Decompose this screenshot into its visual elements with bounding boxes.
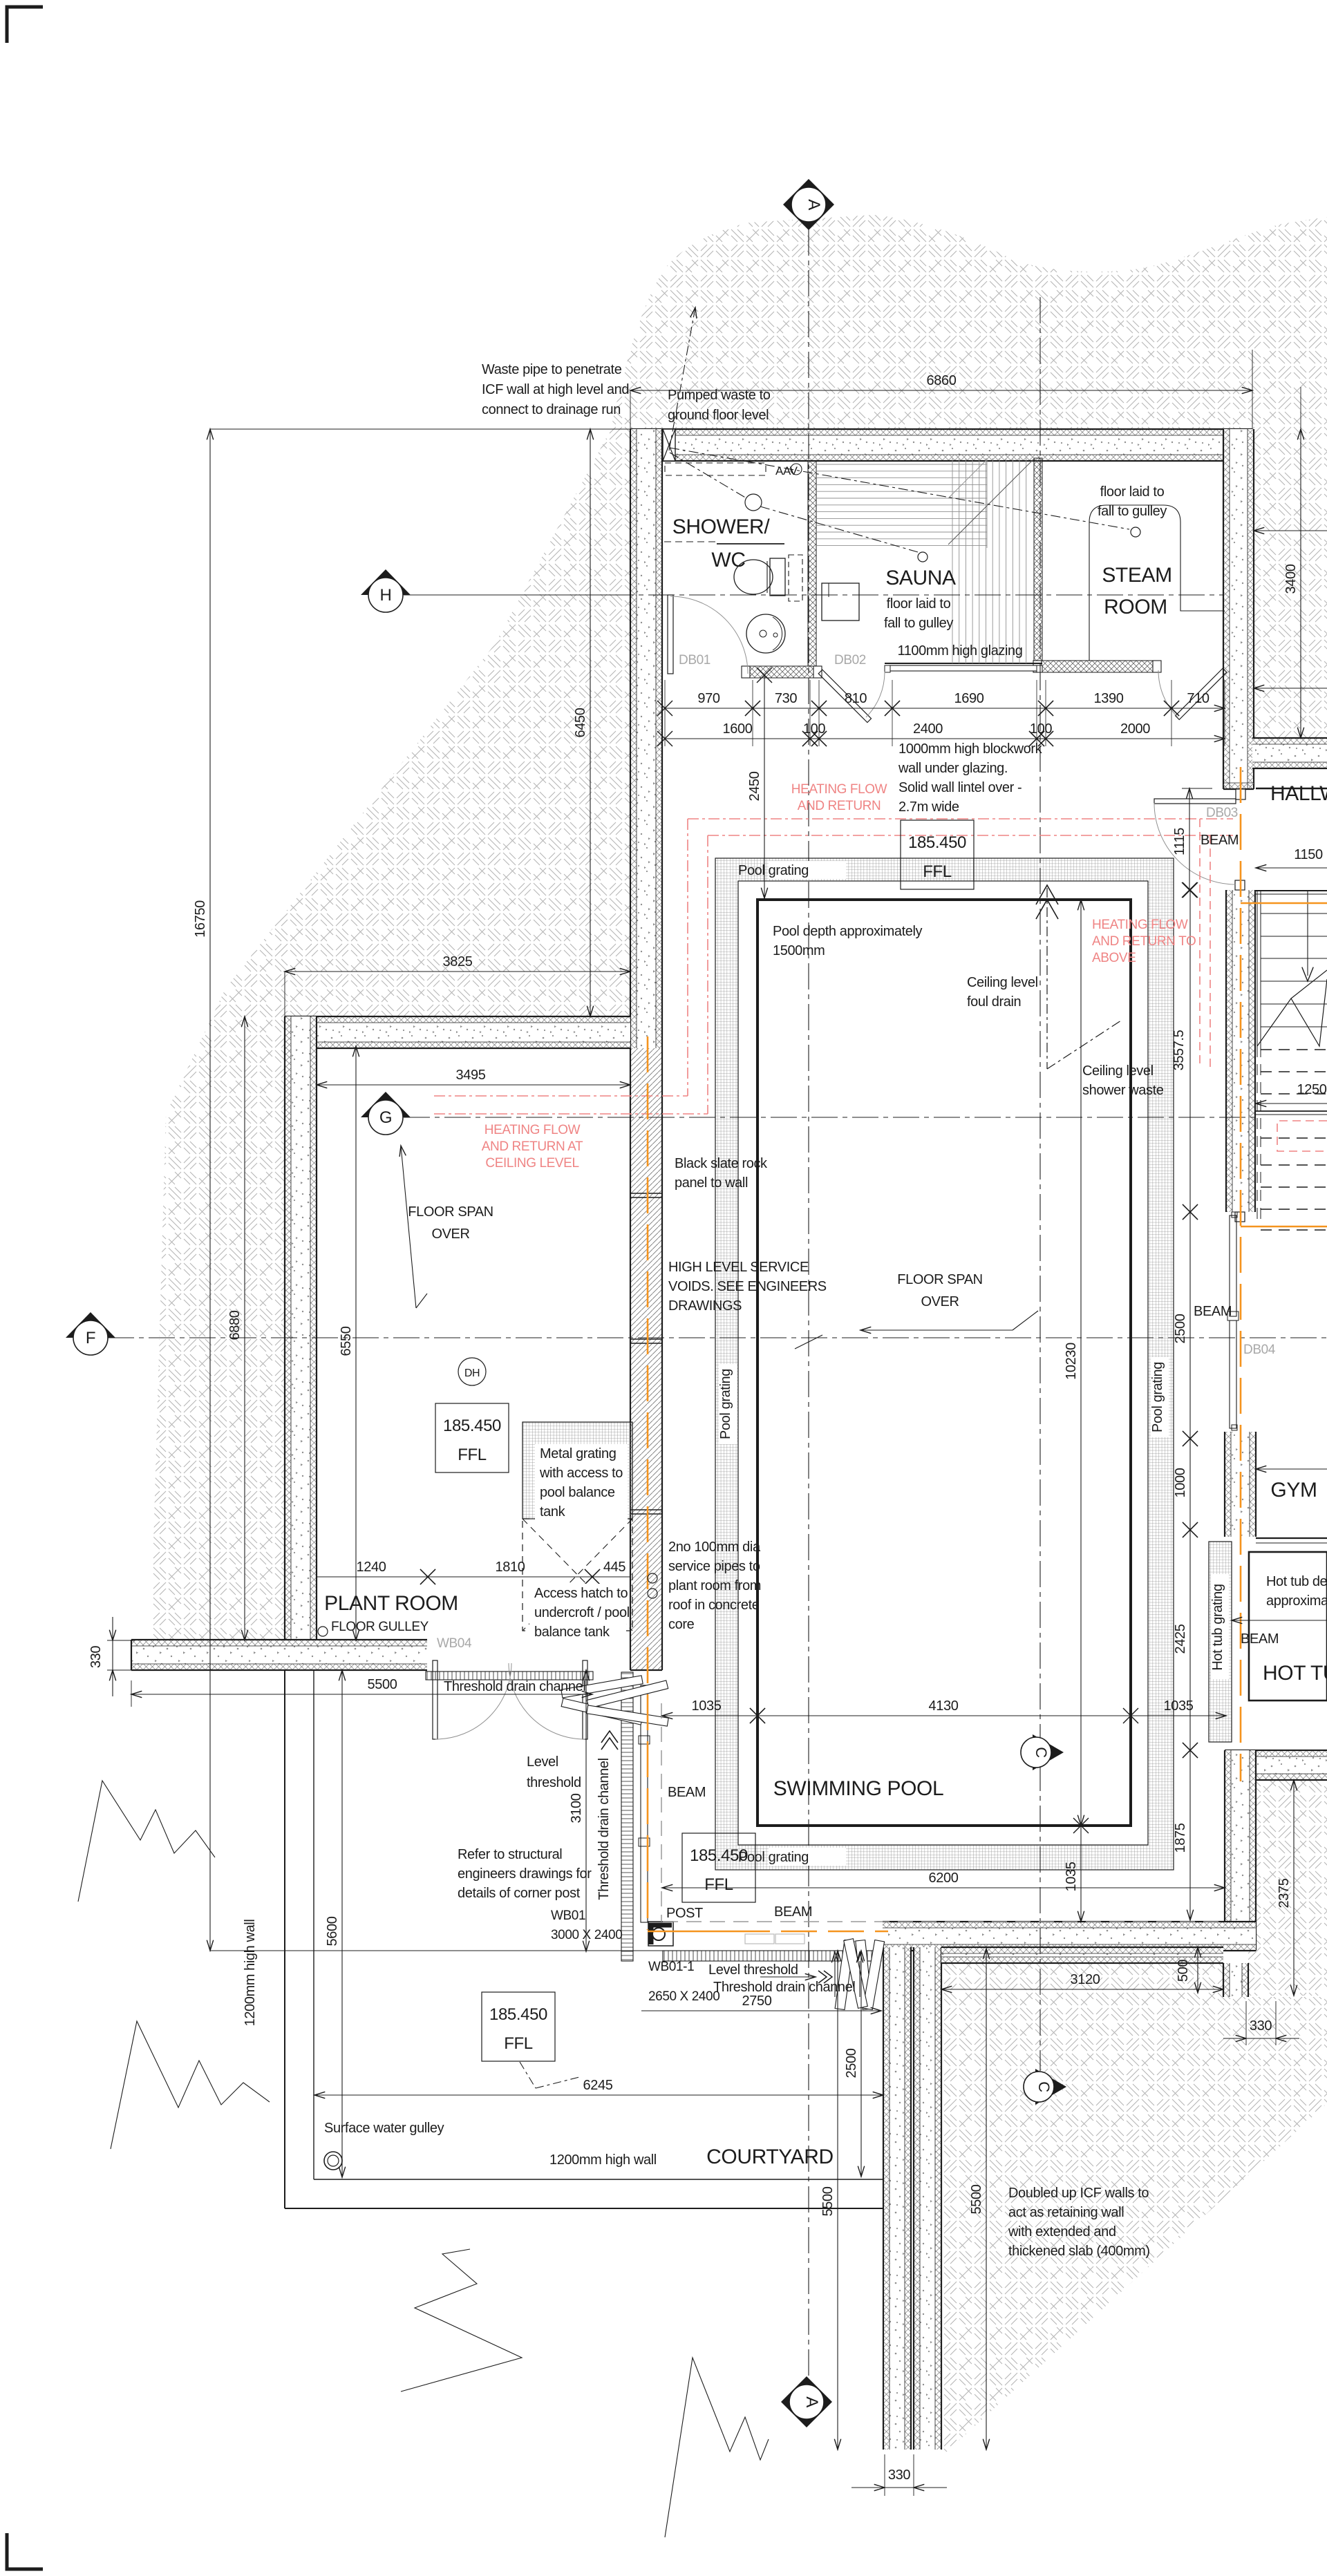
svg-text:BEAM: BEAM	[774, 1904, 812, 1920]
svg-text:2500: 2500	[1173, 1314, 1188, 1343]
svg-text:1115: 1115	[1172, 828, 1187, 855]
svg-text:C: C	[1035, 2081, 1053, 2092]
surface water gulley	[324, 2152, 342, 2170]
svg-text:Hot tub grating: Hot tub grating	[1210, 1584, 1225, 1670]
svg-text:10230: 10230	[1064, 1343, 1079, 1380]
svg-text:Solid wall lintel over -: Solid wall lintel over -	[898, 780, 1022, 795]
FFL box pool SW	[682, 1833, 755, 1902]
grid marker F	[66, 1312, 115, 1338]
svg-text:A: A	[802, 2396, 821, 2407]
svg-text:1810: 1810	[496, 1560, 525, 1575]
svg-text:1035: 1035	[1064, 1862, 1079, 1891]
retaining wall leaf A	[883, 1947, 911, 2450]
svg-text:185.450: 185.450	[443, 1417, 501, 1435]
svg-text:HEATING FLOW: HEATING FLOW	[484, 1123, 581, 1137]
section marker C mid	[1033, 1734, 1064, 1770]
svg-text:Pool depth approximately: Pool depth approximately	[773, 924, 922, 939]
dim 500	[1197, 1947, 1198, 1993]
grid marker H	[404, 594, 630, 596]
dim 2750	[641, 2010, 881, 2011]
svg-text:pool balance: pool balance	[540, 1485, 615, 1500]
dim 6860 top	[630, 390, 631, 429]
svg-text:6860: 6860	[927, 373, 957, 388]
svg-text:wall under glazing.: wall under glazing.	[898, 761, 1008, 776]
door DB01 leaf+swing	[668, 595, 673, 674]
svg-text:FLOOR GULLEY: FLOOR GULLEY	[331, 1620, 429, 1634]
pool surround grating ring	[715, 858, 1174, 1870]
svg-text:FFL: FFL	[923, 862, 952, 881]
partition shower/sauna	[808, 461, 816, 666]
dim 3120	[941, 1963, 942, 1993]
svg-text:HEATING FLOW: HEATING FLOW	[1092, 918, 1188, 932]
svg-text:WB01-1: WB01-1	[648, 1960, 694, 1974]
dim 10230 pool	[1080, 900, 1082, 1826]
partition sauna/steam	[1034, 458, 1042, 661]
svg-text:2.7m wide: 2.7m wide	[898, 799, 959, 815]
sauna floor boards	[816, 464, 987, 465]
svg-text:1500mm: 1500mm	[773, 943, 825, 958]
svg-text:plant room from: plant room from	[668, 1578, 761, 1593]
hot tub grating strip	[1209, 1542, 1232, 1742]
dim 3100	[585, 1670, 587, 1951]
stairs stringer lines	[1257, 891, 1258, 1046]
dim 6200	[662, 1887, 1225, 1888]
dim 5600	[341, 1670, 343, 2177]
svg-text:1600: 1600	[723, 721, 753, 737]
zigzag terrain mark 3	[401, 2249, 522, 2392]
svg-text:service pipes to: service pipes to	[668, 1559, 760, 1574]
waste X-box in wall	[663, 429, 675, 461]
east side stub dims	[1254, 530, 1327, 531]
svg-text:6245: 6245	[583, 2078, 613, 2093]
dim 3495	[317, 1084, 630, 1086]
dim 16750 left	[210, 428, 630, 430]
section marker A bottom	[781, 2376, 832, 2427]
svg-text:Access hatch to: Access hatch to	[534, 1586, 628, 1601]
stairs break line	[1257, 979, 1327, 1046]
svg-text:DRAWINGS: DRAWINGS	[668, 1298, 742, 1314]
svg-text:1240: 1240	[357, 1560, 386, 1575]
DB03 jamb stub	[1236, 789, 1245, 799]
svg-text:1200mm high wall: 1200mm high wall	[243, 1920, 258, 2027]
svg-text:3495: 3495	[456, 1068, 486, 1083]
svg-text:AAV: AAV	[775, 464, 798, 477]
svg-text:threshold: threshold	[527, 1775, 581, 1790]
svg-text:HIGH LEVEL SERVICE: HIGH LEVEL SERVICE	[668, 1260, 809, 1275]
svg-text:810: 810	[845, 691, 867, 706]
dim 1115	[1182, 788, 1212, 789]
svg-text:Pumped waste to: Pumped waste to	[668, 388, 771, 403]
svg-text:FLOOR SPAN: FLOOR SPAN	[897, 1272, 982, 1287]
svg-text:ABOVE: ABOVE	[1092, 951, 1136, 965]
svg-text:6880: 6880	[227, 1310, 243, 1340]
corner post	[648, 1922, 673, 1946]
svg-text:BEAM: BEAM	[668, 1785, 706, 1800]
svg-text:DB03: DB03	[1206, 806, 1238, 820]
svg-text:FLOOR SPAN: FLOOR SPAN	[408, 1204, 493, 1220]
svg-text:2750: 2750	[742, 1993, 772, 2009]
gym dim arrow	[1256, 1468, 1327, 1470]
svg-text:6550: 6550	[339, 1326, 354, 1356]
svg-text:Level threshold: Level threshold	[708, 1962, 798, 1978]
svg-text:shower waste: shower waste	[1082, 1083, 1164, 1098]
svg-text:2no 100mm dia: 2no 100mm dia	[668, 1540, 761, 1555]
svg-text:HALLW: HALLW	[1270, 782, 1327, 805]
svg-text:Level: Level	[527, 1754, 558, 1770]
svg-text:HOT TU: HOT TU	[1263, 1662, 1327, 1685]
svg-text:H: H	[380, 586, 392, 605]
svg-text:core: core	[668, 1617, 695, 1632]
svg-text:approximat: approximat	[1266, 1593, 1327, 1609]
svg-text:4130: 4130	[929, 1698, 959, 1714]
svg-text:A: A	[804, 199, 823, 210]
pumped waste arrow	[669, 307, 695, 451]
dims row1 top rooms	[665, 708, 753, 709]
svg-text:Hot tub dep: Hot tub dep	[1266, 1574, 1327, 1589]
threshold up arrows	[834, 1961, 836, 1997]
access hatch dashed square	[523, 1519, 632, 1631]
svg-text:1150: 1150	[1294, 847, 1323, 862]
svg-text:WB04: WB04	[437, 1636, 472, 1651]
courtyard walls (1200mm high)	[284, 1670, 285, 2208]
svg-text:BEAM: BEAM	[1201, 833, 1239, 848]
bifold louvres south (WB01-1)	[835, 1940, 854, 2010]
svg-text:balance tank: balance tank	[534, 1625, 610, 1640]
svg-text:GYM: GYM	[1270, 1479, 1317, 1502]
svg-text:5500: 5500	[820, 2186, 836, 2216]
threshold drain channel WB04 (west, horizontal)	[426, 1671, 593, 1680]
svg-text:PLANT ROOM: PLANT ROOM	[324, 1592, 458, 1615]
svg-text:STEAM: STEAM	[1102, 564, 1171, 587]
dim extension lines top rooms	[664, 680, 666, 746]
grid line F	[108, 1337, 1327, 1338]
label pool grating right (rot)	[1151, 1357, 1169, 1437]
dim 5500 b	[986, 1949, 987, 2450]
plant room top wall	[285, 1016, 630, 1048]
svg-text:1690: 1690	[954, 691, 984, 706]
svg-text:Black slate rock: Black slate rock	[675, 1156, 768, 1171]
sauna stove	[822, 583, 859, 621]
door DB02 leaf+swing	[818, 670, 871, 722]
grid line G	[404, 1117, 1256, 1118]
svg-text:FFL: FFL	[704, 1875, 733, 1894]
svg-text:SHOWER/: SHOWER/	[672, 515, 771, 538]
svg-text:with extended and: with extended and	[1008, 2224, 1116, 2239]
hot tub dim arrow	[1232, 1620, 1327, 1621]
svg-text:roof in concrete: roof in concrete	[668, 1598, 760, 1613]
svg-text:Pool grating: Pool grating	[1150, 1362, 1165, 1432]
beam gray dashed lines	[663, 1921, 1225, 1922]
border corner top-left	[7, 7, 43, 43]
svg-text:3400: 3400	[1283, 564, 1299, 594]
svg-text:FFL: FFL	[504, 2034, 533, 2053]
svg-text:SWIMMING POOL: SWIMMING POOL	[773, 1777, 943, 1800]
WB04 double doors	[433, 1660, 437, 1739]
svg-text:Threshold drain channel: Threshold drain channel	[596, 1758, 612, 1900]
drain dash-dot lines	[670, 453, 746, 498]
steam room door leaf+swing	[1176, 668, 1227, 719]
dim 6550	[355, 1046, 357, 1640]
earth hatch south-east upper pocket	[1248, 1780, 1327, 1996]
svg-text:2425: 2425	[1173, 1624, 1188, 1654]
threshold drain channel WB01-1 (south, horizontal)	[663, 1951, 881, 1961]
svg-text:5500: 5500	[969, 2184, 984, 2214]
svg-text:500: 500	[1176, 1960, 1191, 1982]
svg-text:445: 445	[603, 1560, 625, 1575]
svg-text:F: F	[86, 1329, 95, 1347]
svg-text:G: G	[379, 1108, 392, 1127]
svg-text:HEATING FLOW: HEATING FLOW	[791, 782, 887, 797]
svg-text:2450: 2450	[747, 771, 762, 801]
dim 6450	[590, 429, 591, 1016]
partition shower south (between DB01 and DB02)	[750, 666, 813, 678]
hot tub box	[1249, 1552, 1327, 1701]
dim 1150 hallway	[1256, 867, 1327, 869]
svg-text:3100: 3100	[569, 1793, 584, 1823]
svg-text:3120: 3120	[1071, 1972, 1100, 1987]
svg-text:185.450: 185.450	[908, 833, 966, 852]
dim 330 plant wall	[107, 1640, 135, 1641]
retaining wall leaf B	[914, 1947, 941, 2450]
svg-text:730: 730	[775, 691, 797, 706]
metal grating (pool balance tank)	[523, 1422, 632, 1519]
svg-text:CEILING LEVEL: CEILING LEVEL	[485, 1156, 578, 1171]
svg-text:2650 X 2400: 2650 X 2400	[648, 1989, 719, 2004]
svg-text:6450: 6450	[573, 708, 588, 737]
svg-text:710: 710	[1187, 691, 1209, 706]
threshold drain channel (vertical, west of pool)	[621, 1672, 633, 1961]
earth hatch north+east	[611, 215, 1327, 738]
gray sliding panels	[745, 1934, 774, 1944]
svg-text:Threshold drain channel: Threshold drain channel	[713, 1980, 855, 1995]
retaining wall corner block	[1223, 1963, 1248, 1997]
svg-text:Refer to structural: Refer to structural	[458, 1847, 562, 1862]
svg-text:ground floor level: ground floor level	[668, 408, 769, 423]
dim 6880	[244, 1016, 245, 1640]
gym floor line / hot tub north edge	[1256, 1537, 1327, 1539]
dim 5500 a	[837, 1951, 838, 2450]
wall east upper (steam room east)	[1223, 429, 1254, 789]
svg-text:5500: 5500	[368, 1677, 397, 1692]
shower screen lines	[664, 541, 717, 542]
dim 5500 left arrows	[131, 1680, 132, 1707]
stairs landing edge	[1256, 1110, 1327, 1112]
svg-text:Ceiling level: Ceiling level	[967, 975, 1038, 990]
south wall segment (pool hall south, east part)	[883, 1922, 1256, 1951]
svg-text:1250: 1250	[1297, 1082, 1327, 1097]
svg-text:3557.5: 3557.5	[1171, 1030, 1187, 1070]
svg-text:tank: tank	[540, 1504, 566, 1519]
glazed screen DB04	[1230, 1215, 1236, 1316]
svg-text:185.450: 185.450	[489, 2005, 547, 2024]
dim 1250 stairs	[1256, 1103, 1327, 1104]
svg-text:330: 330	[88, 1646, 104, 1668]
steam room bench outline	[1089, 505, 1225, 661]
svg-text:1390: 1390	[1094, 691, 1124, 706]
svg-text:330: 330	[1250, 2018, 1272, 2034]
zigzag terrain mark 1	[78, 1781, 215, 1902]
pool floor span symbol	[860, 1329, 1013, 1331]
concrete core wall (plant/pool boundary)	[630, 1048, 662, 1670]
east wall lower (hot tub west / below)	[1225, 1750, 1256, 1951]
wall top (north, ICF)	[630, 429, 1252, 461]
dim 6245	[314, 2094, 883, 2096]
svg-text:Doubled up ICF walls to: Doubled up ICF walls to	[1008, 2186, 1149, 2201]
svg-text:DB02: DB02	[834, 653, 866, 667]
plant room floor span arrow	[401, 1146, 416, 1308]
dim 2375	[1293, 1780, 1295, 1996]
dims right side chain	[1189, 890, 1191, 1212]
dims row2 top rooms	[665, 738, 810, 739]
border corner bottom-left	[7, 2533, 43, 2569]
dim 2500 courtyard	[860, 1951, 862, 2177]
svg-text:with access to: with access to	[539, 1466, 623, 1481]
svg-text:SAUNA: SAUNA	[885, 567, 956, 589]
svg-text:BEAM: BEAM	[1194, 1304, 1232, 1319]
label metal grating	[535, 1444, 628, 1522]
label pool grating bottom	[769, 1848, 846, 1866]
hallway north wall	[1252, 738, 1327, 768]
svg-text:1000: 1000	[1173, 1468, 1188, 1497]
svg-text:VOIDS. SEE ENGINEERS: VOIDS. SEE ENGINEERS	[668, 1279, 827, 1294]
plant room floor gulley	[318, 1627, 328, 1636]
section line C	[1039, 297, 1041, 2071]
svg-text:panel to wall: panel to wall	[675, 1175, 748, 1191]
svg-text:Ceiling level: Ceiling level	[1082, 1063, 1154, 1079]
svg-text:Metal grating: Metal grating	[540, 1446, 616, 1461]
gym pillar wall	[1225, 1432, 1256, 1537]
west glazed wall WB01 (pool hall SW)	[641, 1685, 648, 1922]
FFL box pool north	[901, 820, 974, 889]
svg-text:C: C	[1033, 1747, 1050, 1758]
partition steam south	[1042, 661, 1153, 672]
section marker A top	[783, 179, 834, 230]
svg-text:fall to gulley: fall to gulley	[1098, 504, 1167, 519]
earth hatch south-east main	[944, 1963, 1327, 2452]
bifold louvres west	[561, 1676, 643, 1698]
svg-text:Waste pipe to penetrate: Waste pipe to penetrate	[482, 362, 622, 377]
svg-text:1875: 1875	[1173, 1823, 1188, 1853]
svg-text:OVER: OVER	[921, 1294, 959, 1309]
stair west wall	[1226, 890, 1255, 1212]
svg-text:WB01: WB01	[551, 1909, 585, 1923]
plant room DH symbol	[458, 1358, 486, 1385]
swimming pool	[757, 900, 1131, 1826]
svg-text:1200mm high wall: 1200mm high wall	[549, 2152, 657, 2168]
stairs direction arrow	[1307, 891, 1308, 976]
svg-text:3000 X 2400: 3000 X 2400	[551, 1928, 622, 1942]
dim 3400 east	[1300, 429, 1301, 738]
dim 2450	[764, 675, 765, 898]
orange service line east	[1240, 767, 1242, 1781]
svg-text:1035: 1035	[1164, 1698, 1194, 1714]
plant room west wall	[285, 1016, 317, 1640]
svg-text:16750: 16750	[193, 900, 208, 938]
svg-text:POST: POST	[666, 1906, 703, 1921]
svg-text:floor laid to: floor laid to	[887, 596, 951, 612]
heating flow red lines	[688, 818, 1233, 820]
svg-text:details of corner post: details of corner post	[458, 1886, 581, 1901]
svg-text:DB01: DB01	[679, 653, 710, 667]
dim 330 retaining step	[1245, 2001, 1247, 2045]
svg-text:330: 330	[888, 2468, 910, 2483]
grid marker G	[361, 1092, 411, 1117]
svg-text:Threshold drain channel: Threshold drain channel	[444, 1679, 585, 1694]
svg-text:2500: 2500	[844, 2048, 859, 2078]
svg-text:185.450: 185.450	[690, 1846, 748, 1865]
svg-text:970: 970	[697, 691, 719, 706]
steam gulley	[1131, 527, 1140, 537]
shower gulley	[745, 494, 762, 511]
svg-text:Surface water gulley: Surface water gulley	[324, 2121, 444, 2136]
chevron up	[601, 1731, 618, 1743]
wall west upper (shower boundary ICF)	[630, 429, 662, 1048]
dim 1240/1810/445 plant	[317, 1576, 428, 1578]
svg-text:undercroft / pool: undercroft / pool	[534, 1605, 630, 1620]
basin	[746, 614, 785, 653]
toilet	[734, 560, 773, 594]
svg-text:AND RETURN: AND RETURN	[798, 799, 881, 813]
dashed duct right of toilet	[789, 555, 802, 601]
zigzag terrain mark 2	[111, 2021, 270, 2149]
red dashed duct at stairs	[1277, 1121, 1327, 1151]
svg-text:1035: 1035	[692, 1698, 722, 1714]
svg-text:1100mm high glazing: 1100mm high glazing	[897, 643, 1022, 659]
service pipes circles	[648, 1573, 657, 1583]
section marker C bottom	[1035, 2069, 1066, 2105]
svg-text:Pool grating: Pool grating	[738, 863, 809, 878]
svg-text:floor laid to: floor laid to	[1100, 484, 1165, 500]
ceiling foul drain dash-dot + arrow	[1046, 888, 1048, 1069]
svg-text:act as retaining wall: act as retaining wall	[1008, 2205, 1124, 2220]
sauna gulley	[918, 552, 928, 562]
retaining wall horizontal top	[941, 1947, 1223, 1963]
section line A	[808, 229, 809, 2385]
svg-text:3825: 3825	[443, 954, 473, 969]
svg-text:2375: 2375	[1277, 1878, 1292, 1908]
svg-text:ICF wall at high level and: ICF wall at high level and	[482, 382, 629, 397]
svg-text:connect to drainage run: connect to drainage run	[482, 402, 621, 417]
hot tub south wall	[1225, 1750, 1327, 1780]
svg-text:2000: 2000	[1120, 721, 1150, 737]
label pool grating left (rot)	[719, 1364, 737, 1444]
svg-text:Pool grating: Pool grating	[738, 1850, 809, 1865]
label access hatch	[529, 1584, 626, 1639]
svg-text:WC: WC	[711, 549, 745, 571]
dim 3825	[284, 972, 285, 1016]
svg-text:AND RETURN TO: AND RETURN TO	[1092, 934, 1196, 949]
door DB03 leaf+swing	[1154, 799, 1236, 804]
svg-text:thickened slab (400mm): thickened slab (400mm)	[1008, 2244, 1150, 2259]
svg-text:2400: 2400	[913, 721, 943, 737]
sauna south glazing (1100mm high)	[889, 665, 1038, 671]
svg-text:5600: 5600	[325, 1916, 340, 1946]
svg-text:AND RETURN AT: AND RETURN AT	[482, 1139, 583, 1154]
svg-text:COURTYARD: COURTYARD	[706, 2146, 834, 2168]
svg-text:ROOM: ROOM	[1104, 596, 1167, 618]
svg-text:Pool grating: Pool grating	[718, 1369, 733, 1439]
svg-text:DH: DH	[464, 1367, 480, 1379]
svg-text:FFL: FFL	[458, 1446, 487, 1464]
label pool grating top	[769, 861, 846, 879]
earth hatch west	[151, 429, 630, 1640]
svg-text:DB04: DB04	[1243, 1343, 1276, 1357]
zigzag terrain mark 4	[665, 2358, 769, 2537]
FFL box courtyard	[482, 1992, 555, 2061]
svg-text:BEAM: BEAM	[1241, 1631, 1279, 1647]
AAV dashed duct	[665, 463, 766, 475]
dim 1035 vertical SW	[1080, 1826, 1082, 1922]
